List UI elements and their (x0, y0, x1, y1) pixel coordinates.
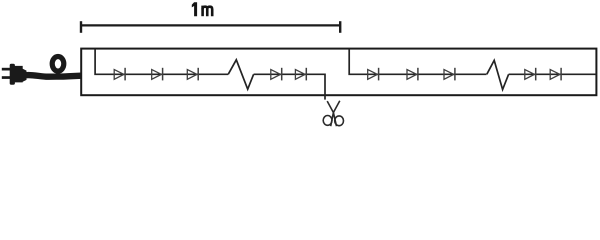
section 1 feed wire (95, 49, 228, 75)
LED D3 (187, 68, 198, 81)
LED D1 (114, 68, 125, 81)
section 1 mid wire (254, 73, 325, 75)
strip outline (81, 49, 596, 96)
plug prong lower (2, 76, 11, 79)
LED D7 (407, 68, 418, 81)
cable knot loop (52, 57, 64, 72)
LED D6 (368, 68, 379, 81)
dimension label 1 m (192, 2, 197, 16)
LED D10 (550, 68, 561, 81)
LED D4 (271, 68, 282, 81)
dimension tick right (339, 21, 341, 33)
resistor R2 zigzag (487, 60, 509, 89)
section 2 tail wire (509, 73, 597, 75)
LED D2 (152, 68, 163, 81)
LED D5 (295, 68, 306, 81)
scissors handle ring left (323, 116, 332, 126)
scissors blade 2 (331, 101, 340, 126)
section 1 return wire to bottom rail (324, 74, 326, 100)
plug body (10, 64, 27, 85)
resistor R1 zigzag (228, 60, 253, 89)
plug prong upper (2, 68, 11, 71)
dimension line (81, 24, 340, 26)
dimension tick left (80, 21, 82, 33)
cable (26, 75, 82, 77)
LED D9 (525, 68, 536, 81)
scissors blade 1 (327, 101, 336, 126)
LED D8 (444, 68, 455, 81)
scissors handle ring right (335, 116, 344, 126)
section 2 feed wire (349, 49, 486, 75)
